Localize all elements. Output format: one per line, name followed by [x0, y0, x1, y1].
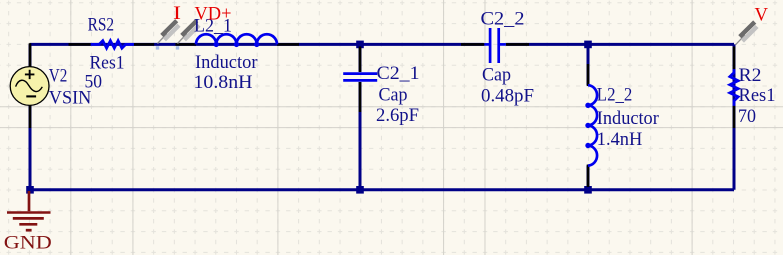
- svg-text:V2: V2: [49, 65, 68, 86]
- svg-text:GND: GND: [4, 233, 52, 254]
- svg-text:I: I: [173, 3, 181, 24]
- svg-text:Cap: Cap: [379, 85, 408, 106]
- svg-text:VD+: VD+: [195, 4, 232, 25]
- svg-text:C2_1: C2_1: [377, 63, 420, 84]
- svg-text:1.4nH: 1.4nH: [597, 129, 643, 150]
- svg-text:70: 70: [738, 106, 756, 127]
- svg-text:C2_2: C2_2: [481, 9, 525, 30]
- svg-text:Inductor: Inductor: [597, 108, 660, 129]
- svg-text:V: V: [755, 5, 769, 26]
- svg-text:R2: R2: [739, 65, 762, 86]
- svg-text:2.6pF: 2.6pF: [376, 105, 419, 126]
- svg-text:VSIN: VSIN: [49, 87, 92, 108]
- svg-text:0.48pF: 0.48pF: [481, 85, 534, 106]
- svg-text:Cap: Cap: [482, 65, 511, 86]
- svg-text:10.8nH: 10.8nH: [194, 72, 253, 93]
- svg-text:L2_2: L2_2: [597, 84, 633, 105]
- svg-text:Res1: Res1: [739, 85, 776, 106]
- svg-text:RS2: RS2: [88, 14, 115, 35]
- svg-text:Res1: Res1: [90, 52, 125, 73]
- svg-text:Inductor: Inductor: [195, 52, 258, 73]
